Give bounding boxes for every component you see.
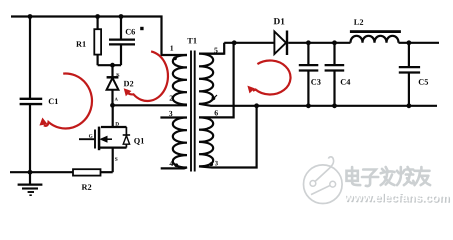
svg-text:D2: D2 — [123, 79, 133, 88]
svg-text:K: K — [116, 72, 120, 77]
svg-text:www.elecfans.com: www.elecfans.com — [343, 190, 449, 205]
svg-text:D: D — [115, 122, 119, 128]
svg-text:S: S — [115, 157, 118, 163]
svg-text:4: 4 — [169, 159, 173, 168]
svg-text:2: 2 — [169, 94, 173, 103]
svg-text:C6: C6 — [125, 27, 135, 36]
svg-text:5: 5 — [214, 46, 218, 55]
svg-text:Q1: Q1 — [134, 137, 145, 146]
svg-text:C4: C4 — [340, 78, 350, 87]
svg-text:C5: C5 — [418, 78, 428, 87]
svg-text:1: 1 — [170, 44, 174, 53]
svg-text:3: 3 — [169, 109, 173, 118]
svg-text:T1: T1 — [187, 36, 197, 45]
svg-text:D1: D1 — [273, 17, 285, 27]
svg-text:R1: R1 — [76, 40, 86, 49]
svg-text:6: 6 — [214, 108, 218, 117]
svg-text:L2: L2 — [354, 18, 364, 27]
svg-text:G: G — [89, 134, 93, 140]
svg-text:R2: R2 — [81, 183, 91, 192]
svg-text:C3: C3 — [311, 78, 321, 87]
svg-text:C1: C1 — [48, 97, 58, 106]
